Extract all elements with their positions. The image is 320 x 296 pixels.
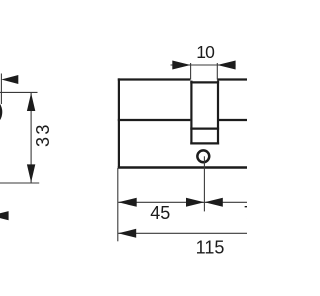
svg-text:10: 10 [196, 42, 215, 62]
svg-text:115: 115 [196, 238, 225, 258]
svg-text:45: 45 [150, 203, 170, 223]
svg-text:33: 33 [33, 122, 53, 147]
svg-text:70: 70 [244, 203, 247, 223]
